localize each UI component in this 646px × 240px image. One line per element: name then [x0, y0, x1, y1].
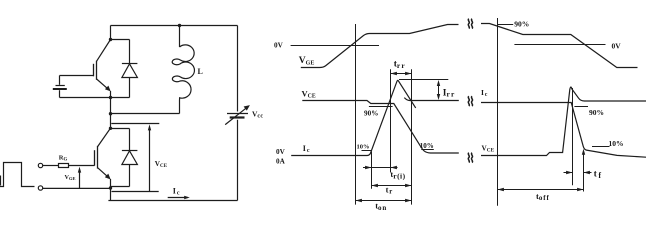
node: lower emitter junction: [109, 186, 112, 189]
svg-text:RG: RG: [59, 154, 68, 162]
svg-text:L: L: [198, 67, 203, 76]
svg-text:tr(i): tr(i): [390, 169, 405, 180]
node: top rail junction: [178, 24, 181, 27]
bottom rail: [108, 200, 237, 202]
svg-text:0V: 0V: [612, 41, 622, 50]
90% level line (turn-on): [369, 106, 393, 108]
inductor top lead: [179, 26, 181, 48]
transistor Q1 upper IGBT: [94, 40, 111, 98]
diode D1 (upper freewheel): [111, 64, 138, 98]
tf dimension: [564, 171, 592, 175]
break symbol VGE: [468, 19, 472, 29]
wire T1 to RG: [43, 165, 59, 167]
svg-text:ton: ton: [375, 201, 387, 212]
tr(i) tick left: [371, 152, 373, 189]
Ic arrow: [168, 196, 190, 199]
gate wire Q1: [60, 75, 94, 77]
VCE waveform (turn-off) with overshoot: [481, 87, 646, 155]
terminal T1: [38, 163, 42, 167]
wire T2 to emitter node: [43, 187, 111, 189]
input pulse symbol: [0, 163, 35, 187]
svg-text:Ic: Ic: [173, 187, 180, 197]
WAVEFORMS: [291, 18, 646, 206]
trr dimension: [391, 72, 412, 76]
tr(i) dimension: [363, 166, 398, 170]
VCE waveform (turn-on): [302, 101, 459, 154]
Irr reference line: [399, 79, 448, 81]
Ic waveform (turn-on) with reverse recovery peak: [291, 80, 416, 155]
gate bias battery: [53, 76, 111, 98]
terminal T2: [38, 186, 42, 190]
wire to inductor bottom: [111, 101, 180, 114]
trr tick left: [390, 69, 392, 172]
svg-text:VGE: VGE: [299, 56, 315, 66]
svg-text:VCE: VCE: [302, 88, 316, 99]
source VCC variable: [225, 105, 250, 125]
toff dimension: [498, 188, 584, 192]
svg-text:10%: 10%: [420, 142, 434, 150]
Irr arrow: [437, 80, 440, 100]
10% level line right (turn-on): [421, 149, 434, 151]
top rail: [111, 25, 238, 27]
Ic waveform (turn-off): [481, 103, 646, 158]
resistor RG: [59, 164, 69, 168]
mid vertical wire: [110, 98, 112, 129]
90% level line (turn-off): [574, 106, 588, 108]
svg-text:Ic: Ic: [303, 144, 310, 154]
tf tick left: [572, 88, 574, 185]
Ic settled line (turn-on): [404, 98, 459, 101]
node: upper collector junction: [109, 38, 112, 41]
svg-text:toff: toff: [536, 191, 550, 202]
inductor L: [172, 45, 194, 101]
svg-text:90%: 90%: [589, 108, 604, 117]
svg-text:10%: 10%: [357, 144, 370, 151]
svg-text:90%: 90%: [364, 109, 378, 117]
node: lower collector junction: [109, 127, 112, 130]
wire RG to gate Q2: [69, 165, 95, 167]
transistor Q2 lower IGBT: [95, 128, 111, 188]
svg-text:0V: 0V: [274, 42, 284, 50]
svg-text:VCE: VCE: [155, 160, 168, 169]
turn-off time marker: [497, 18, 499, 206]
wire emitter to diode D2 anode: [111, 165, 130, 187]
VCE measure line bottom: [112, 191, 159, 193]
left bottom vertical: [110, 188, 112, 200]
VCE measure line top: [111, 123, 159, 125]
wire collector to diode D1 cathode: [111, 40, 130, 64]
ton dimension: [356, 199, 412, 203]
tr dimension: [372, 184, 412, 188]
svg-text:Ic: Ic: [481, 88, 488, 98]
VGE waveform (turn-off): [481, 24, 638, 68]
svg-text:0A: 0A: [276, 157, 286, 165]
tf tick right with arrow: [582, 149, 585, 192]
svg-text:90%: 90%: [514, 20, 529, 29]
diode D2 (lower freewheel): [111, 129, 138, 165]
turn-on time marker: [355, 24, 357, 205]
node: upper emitter junction: [109, 96, 112, 99]
VCE measure arrow: [148, 124, 151, 191]
0V reference line (turn-on): [291, 45, 379, 47]
svg-text:trr: trr: [394, 60, 406, 70]
trr tick right: [411, 69, 413, 204]
90% level line (turn-off VGE): [498, 24, 514, 26]
svg-text:10%: 10%: [609, 139, 624, 148]
svg-text:0V: 0V: [276, 148, 286, 156]
node: mid junction to inductor: [109, 112, 112, 115]
svg-text:Irr: Irr: [443, 88, 456, 98]
left top vertical: [110, 26, 112, 40]
break symbol Ic: [468, 96, 472, 106]
svg-text:VGE: VGE: [65, 174, 76, 181]
VGE waveform (turn-on): [301, 25, 459, 68]
edge mark: [0, 176, 2, 186]
10% level line left (turn-on): [362, 150, 372, 152]
svg-text:Vcc: Vcc: [252, 110, 263, 120]
svg-text:tf: tf: [594, 169, 602, 180]
right rail: [237, 26, 239, 201]
svg-text:VCE: VCE: [482, 144, 495, 153]
10% level line (turn-off): [592, 146, 610, 148]
VGE measure arrow: [78, 167, 81, 189]
break symbol VCE: [468, 153, 472, 163]
0V reference line (turn-off): [514, 44, 605, 46]
